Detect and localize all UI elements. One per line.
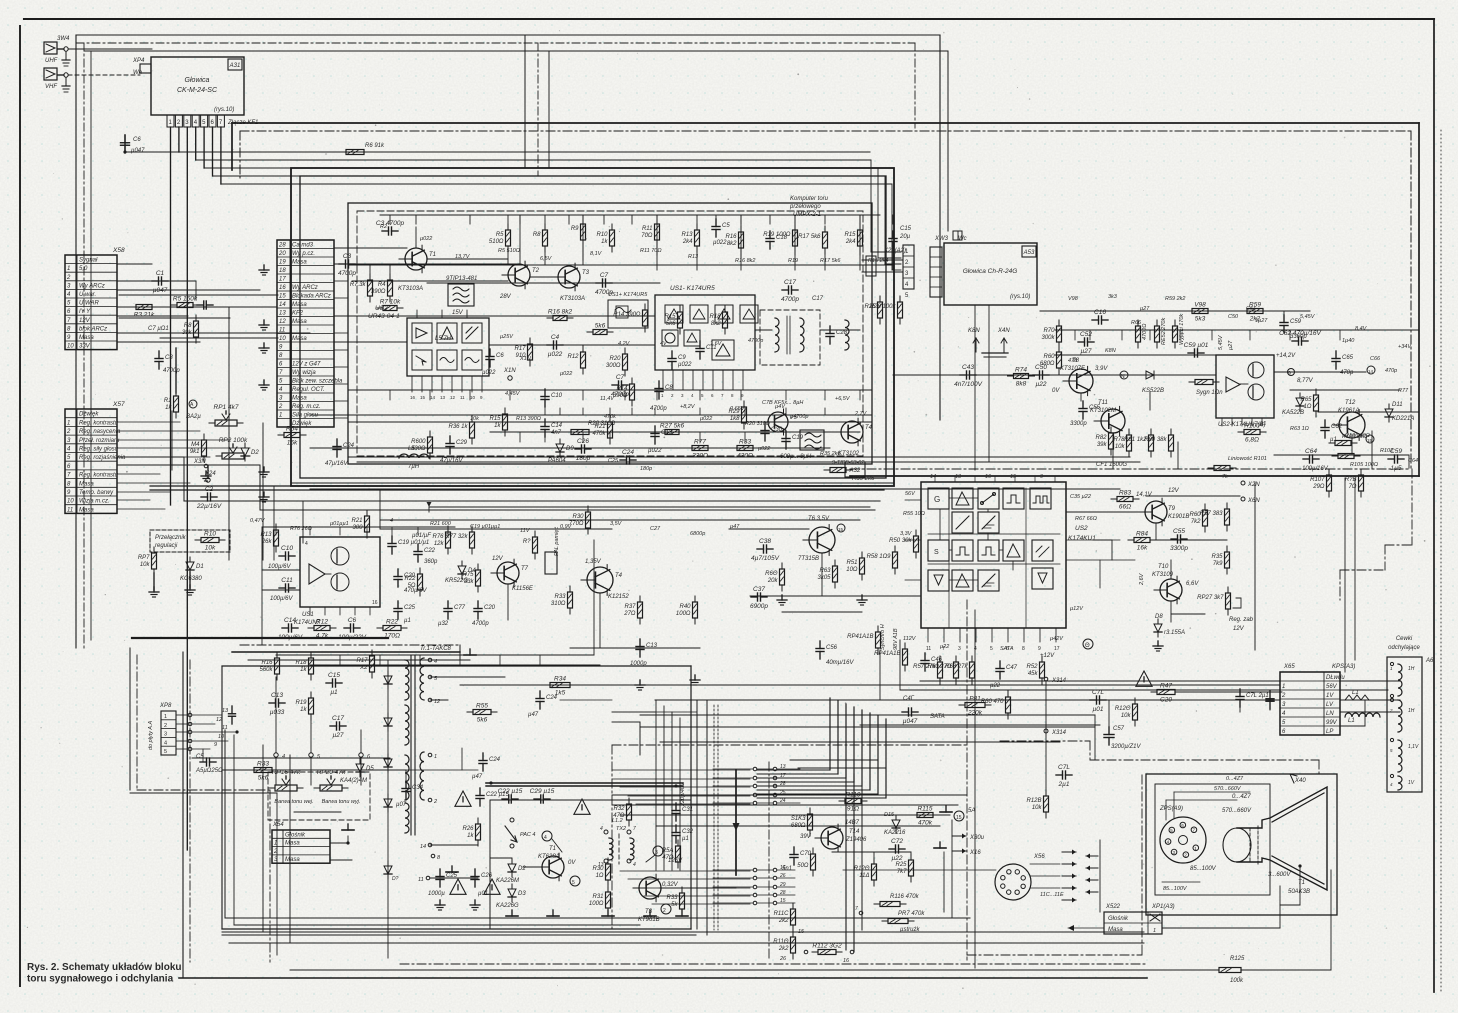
svg-text:7k: 7k (1222, 474, 1228, 480)
svg-text:R74: R74 (1015, 367, 1027, 374)
svg-text:15: 15 (780, 898, 786, 904)
svg-text:US1+ K174UR5: US1+ K174UR5 (608, 292, 648, 298)
svg-text:X30u: X30u (969, 835, 985, 841)
svg-text:KT628A: KT628A (538, 854, 560, 860)
svg-text:R54: R54 (286, 426, 298, 433)
svg-text:15: 15 (420, 395, 426, 400)
svg-text:µ27: µ27 (1228, 340, 1234, 350)
svg-text:4,2V: 4,2V (618, 341, 631, 347)
svg-text:430Ω: 430Ω (737, 453, 753, 460)
svg-text:L1: L1 (1352, 690, 1359, 696)
svg-text:KT3102: KT3102 (838, 451, 860, 457)
svg-text:R84: R84 (1136, 531, 1148, 538)
svg-text:K174KU1: K174KU1 (1068, 535, 1096, 542)
svg-text:X1N: X1N (519, 356, 531, 362)
svg-text:Masa: Masa (292, 319, 307, 325)
svg-text:VHF: VHF (45, 84, 57, 90)
svg-text:µ47: µ47 (528, 712, 539, 718)
svg-text:330Ω: 330Ω (692, 453, 708, 460)
svg-text:T7: T7 (521, 566, 529, 572)
svg-text:C6: C6 (496, 353, 504, 359)
svg-text:R12: R12 (316, 619, 328, 626)
svg-text:XW3: XW3 (934, 236, 949, 242)
svg-text:16: 16 (843, 958, 850, 964)
svg-text:D2: D2 (251, 450, 259, 456)
svg-text:PA604: PA604 (548, 458, 566, 464)
svg-text:16: 16 (372, 600, 378, 606)
svg-text:µ022: µ022 (648, 448, 662, 454)
svg-text:4: 4 (390, 518, 393, 524)
svg-text:A31: A31 (229, 63, 241, 69)
svg-text:PAL pamięć: PAL pamięć (554, 527, 560, 556)
svg-text:R59 2k2: R59 2k2 (1165, 296, 1186, 302)
svg-text:8,1V: 8,1V (590, 251, 603, 257)
svg-text:12V: 12V (492, 556, 504, 562)
svg-text:2: 2 (278, 404, 283, 410)
svg-text:BA2µ: BA2µ (186, 414, 201, 420)
svg-text:R12Θ: R12Θ (1115, 706, 1131, 712)
svg-text:X54: X54 (272, 822, 284, 828)
svg-text:US2: US2 (375, 305, 388, 312)
svg-text:16: 16 (985, 474, 992, 480)
svg-text:K8N: K8N (1105, 348, 1116, 354)
svg-text:R35 2k6: R35 2k6 (852, 476, 875, 482)
svg-text:R34: R34 (554, 676, 566, 683)
svg-text:Dźwięk: Dźwięk (79, 412, 99, 418)
svg-text:C51: C51 (1246, 306, 1256, 312)
svg-text:C77: C77 (454, 605, 466, 611)
svg-text:11Δ: 11Δ (859, 873, 869, 879)
svg-text:R21: R21 (351, 518, 362, 524)
svg-text:20: 20 (278, 251, 286, 257)
svg-text:R35: R35 (1211, 554, 1223, 560)
svg-text:5: 5 (990, 646, 993, 652)
svg-text:T4: T4 (865, 425, 873, 431)
svg-text:R3 21k: R3 21k (134, 312, 155, 319)
svg-text:A6: A6 (1425, 658, 1434, 664)
svg-text:1k8: 1k8 (730, 416, 740, 422)
svg-text:11: 11 (926, 646, 931, 652)
svg-text:R40: R40 (679, 604, 691, 610)
svg-text:Θ: Θ (1085, 643, 1090, 649)
svg-text:28: 28 (278, 243, 286, 249)
svg-text:Masa: Masa (292, 396, 307, 402)
svg-text:R10: R10 (204, 531, 216, 538)
svg-text:4: 4 (600, 826, 603, 832)
svg-text:7: 7 (633, 826, 636, 832)
svg-text:T1: T1 (429, 252, 436, 258)
svg-text:R36 1k: R36 1k (448, 424, 468, 430)
svg-text:R14: R14 (616, 386, 628, 392)
svg-text:R68 27k: R68 27k (945, 664, 968, 670)
svg-text:10k: 10k (1121, 713, 1132, 719)
svg-text:T12: T12 (1345, 400, 1356, 406)
svg-text:µstrużk: µstrużk (900, 927, 920, 933)
svg-text:4700p: 4700p (338, 270, 356, 277)
svg-text:Masa: Masa (285, 857, 300, 863)
svg-text:9-TIP8-63-02: 9-TIP8-63-02 (832, 460, 864, 466)
svg-text:91Ω: 91Ω (847, 806, 859, 813)
svg-text:1H: 1H (1408, 666, 1415, 672)
svg-text:X6N: X6N (1247, 498, 1260, 504)
svg-text:(rys.10): (rys.10) (214, 107, 234, 113)
svg-text:3k3: 3k3 (1108, 294, 1118, 300)
svg-text:Głowica: Głowica (185, 77, 210, 84)
svg-text:Temp. barwy: Temp. barwy (79, 490, 114, 496)
svg-text:1: 1 (279, 413, 282, 419)
svg-text:50AK3B: 50AK3B (1288, 889, 1310, 895)
svg-text:D11: D11 (1392, 402, 1403, 408)
svg-text:C7L 2µ1: C7L 2µ1 (1246, 693, 1269, 699)
svg-text:12: 12 (450, 395, 456, 400)
svg-text:4700p: 4700p (163, 368, 180, 374)
svg-text:C50: C50 (1228, 314, 1239, 320)
svg-text:KA522B: KA522B (1282, 410, 1304, 416)
svg-text:T4: T4 (615, 573, 623, 579)
svg-text:µ022: µ022 (548, 351, 563, 358)
svg-text:C29: C29 (456, 440, 468, 446)
svg-text:C38: C38 (759, 538, 771, 545)
svg-text:µ07: µ07 (396, 802, 407, 808)
svg-text:8k8: 8k8 (1016, 381, 1027, 388)
svg-text:12V z G47: 12V z G47 (292, 362, 321, 368)
svg-text:R15: R15 (844, 232, 856, 238)
svg-text:R11C: R11C (774, 911, 790, 917)
svg-text:C62 470µ/16V: C62 470µ/16V (1279, 330, 1321, 337)
svg-text:13: 13 (279, 311, 286, 317)
svg-text:3,3V: 3,3V (900, 531, 913, 537)
svg-text:47µ/16V: 47µ/16V (440, 458, 463, 464)
svg-text:1k: 1k (467, 833, 474, 839)
svg-text:R1: R1 (164, 398, 172, 404)
svg-text:1,35V: 1,35V (585, 559, 602, 565)
svg-text:R37: R37 (624, 604, 636, 610)
svg-text:5n1: 5n1 (782, 866, 792, 872)
svg-text:C72: C72 (891, 838, 903, 845)
svg-text:11,4V: 11,4V (600, 396, 615, 402)
svg-text:3200µ/Z1V: 3200µ/Z1V (1111, 744, 1141, 750)
svg-text:47Ω: 47Ω (613, 813, 625, 819)
svg-text:14: 14 (930, 474, 936, 480)
svg-text:R76 26Ω: R76 26Ω (290, 526, 312, 532)
svg-text:2k2: 2k2 (778, 946, 789, 952)
svg-text:N: N (1121, 374, 1125, 380)
svg-text:1: 1 (67, 266, 70, 272)
svg-text:C17: C17 (784, 279, 796, 286)
svg-text:478: 478 (1068, 358, 1078, 364)
svg-text:4µ7/105V: 4µ7/105V (751, 555, 780, 562)
svg-text:Masa: Masa (292, 302, 307, 308)
svg-text:R2: R2 (380, 224, 387, 230)
svg-text:R16 8k2: R16 8k2 (735, 258, 756, 264)
svg-text:XP1(A3): XP1(A3) (1151, 904, 1175, 910)
svg-text:R15 2k4: R15 2k4 (868, 258, 889, 264)
svg-text:C4Γ: C4Γ (903, 696, 915, 702)
svg-text:K8N: K8N (968, 328, 980, 334)
svg-text:4n7: 4n7 (551, 430, 562, 436)
svg-text:R28 100k: R28 100k (870, 304, 897, 310)
svg-text:R12B: R12B (1026, 798, 1041, 804)
svg-text:Reg. kontrastu: Reg. kontrastu (79, 420, 119, 426)
svg-text:R33: R33 (554, 594, 566, 600)
svg-text:R67 66Ω: R67 66Ω (1075, 516, 1097, 522)
svg-text:R77: R77 (1398, 388, 1409, 394)
svg-text:odchylające: odchylające (1388, 645, 1420, 651)
svg-text:(rys.10): (rys.10) (1010, 294, 1030, 300)
svg-text:R17 5k6: R17 5k6 (820, 258, 841, 264)
svg-text:1000µ: 1000µ (428, 891, 445, 897)
svg-text:10k: 10k (140, 562, 151, 568)
svg-text:D3: D3 (518, 891, 526, 897)
svg-text:28V: 28V (499, 294, 512, 300)
svg-text:KD221A: KD221A (1392, 416, 1414, 422)
svg-text:4: 4 (974, 646, 977, 652)
svg-text:3300p: 3300p (1070, 421, 1087, 427)
svg-text:5: 5 (164, 749, 167, 755)
svg-text:33k: 33k (464, 579, 475, 585)
svg-text:KT3103A: KT3103A (560, 296, 585, 302)
svg-text:K1961A: K1961A (1338, 408, 1359, 414)
svg-text:C6: C6 (133, 137, 141, 143)
svg-text:S: S (934, 549, 939, 556)
svg-text:R22: R22 (404, 576, 416, 582)
svg-text:R32: R32 (613, 806, 625, 812)
svg-text:C66: C66 (1370, 356, 1381, 362)
svg-text:6,6V: 6,6V (1186, 581, 1199, 587)
svg-text:0V: 0V (568, 860, 576, 866)
svg-text:µ022: µ022 (420, 236, 432, 242)
svg-text:Przeł. rozmiaru: Przeł. rozmiaru (79, 438, 120, 444)
svg-text:15: 15 (798, 929, 805, 935)
svg-text:LP: LP (1326, 729, 1333, 735)
svg-text:R21: R21 (594, 424, 605, 430)
svg-text:R20: R20 (609, 356, 621, 362)
svg-text:8: 8 (1022, 646, 1025, 652)
svg-text:µ1: µ1 (330, 689, 338, 696)
svg-text:11: 11 (460, 395, 465, 400)
svg-text:12k: 12k (434, 541, 445, 547)
svg-text:3,9V: 3,9V (1095, 366, 1108, 372)
svg-text:C20: C20 (484, 605, 496, 611)
svg-text:R55: R55 (476, 703, 488, 710)
svg-text:C27: C27 (650, 526, 661, 532)
svg-text:R100: R100 (1244, 423, 1260, 430)
svg-text:Blokada ARCz: Blokada ARCz (292, 294, 331, 300)
svg-text:R105 100Ω: R105 100Ω (1350, 462, 1378, 468)
svg-text:V98: V98 (1068, 296, 1079, 302)
svg-text:X24: X24 (204, 471, 216, 477)
svg-text:T11: T11 (1098, 400, 1108, 406)
svg-text:6,5V: 6,5V (540, 256, 553, 262)
svg-text:R102: R102 (1380, 448, 1393, 454)
svg-text:RP7: RP7 (138, 555, 150, 561)
svg-text:U war.: U war. (79, 292, 96, 298)
svg-text:16: 16 (410, 395, 416, 400)
svg-text:R125: R125 (1230, 956, 1245, 962)
svg-text:C7L: C7L (1092, 689, 1104, 696)
svg-text:99V: 99V (1326, 720, 1338, 726)
svg-text:R60: R60 (1043, 354, 1055, 360)
svg-text:39k: 39k (1097, 442, 1108, 448)
svg-text:R17: R17 (356, 658, 368, 664)
svg-text:C7: C7 (600, 272, 609, 279)
svg-text:µ047: µ047 (153, 287, 168, 294)
svg-text:KA2216: KA2216 (884, 830, 906, 836)
svg-text:R5 150k: R5 150k (173, 296, 198, 303)
svg-text:8,77V: 8,77V (1297, 378, 1314, 384)
svg-text:R57 383: R57 383 (1200, 511, 1223, 517)
svg-text:toru sygnałowego i odchylania: toru sygnałowego i odchylania (27, 974, 174, 985)
svg-text:310Ω: 310Ω (551, 601, 566, 607)
svg-text:XP8: XP8 (159, 703, 172, 709)
svg-text:1µ40: 1µ40 (1342, 338, 1355, 344)
svg-text:K1901B: K1901B (1168, 514, 1189, 520)
svg-text:17: 17 (1054, 646, 1060, 652)
svg-text:100Ω: 100Ω (676, 611, 691, 617)
svg-text:360p: 360p (424, 559, 438, 565)
svg-text:1,6V: 1,6V (710, 341, 723, 347)
svg-text:Regul. OCT.: Regul. OCT. (292, 387, 325, 393)
svg-text:X40: X40 (1294, 778, 1306, 784)
svg-text:C24: C24 (489, 757, 501, 763)
svg-text:Reg. kontrastu: Reg. kontrastu (79, 473, 119, 479)
svg-text:100µ/6V: 100µ/6V (268, 564, 291, 570)
svg-text:RP1 4k7: RP1 4k7 (214, 404, 239, 411)
svg-text:Głośnik: Głośnik (1108, 916, 1129, 922)
svg-text:13: 13 (598, 862, 604, 868)
svg-text:8k2: 8k2 (727, 241, 737, 247)
svg-text:22µ/16V: 22µ/16V (196, 503, 222, 510)
svg-text:C56: C56 (826, 645, 838, 651)
svg-text:300: 300 (352, 525, 363, 531)
svg-text:X16: X16 (969, 850, 981, 856)
svg-text:X1N: X1N (503, 368, 516, 374)
svg-text:C7 µΩ1: C7 µΩ1 (148, 326, 169, 332)
svg-text:3: 3 (958, 646, 961, 652)
svg-text:V98: V98 (1194, 302, 1206, 309)
svg-text:1µ5: 1µ5 (1391, 465, 1402, 472)
svg-text:T6 3,5V: T6 3,5V (808, 516, 830, 522)
svg-text:2: 2 (66, 275, 71, 281)
svg-text:C32: C32 (682, 829, 694, 835)
svg-text:µ022: µ022 (678, 362, 692, 368)
svg-text:16k: 16k (1137, 545, 1148, 552)
svg-text:A32: A32 (849, 468, 861, 474)
svg-text:26: 26 (779, 956, 787, 962)
svg-text:R15: R15 (664, 314, 676, 320)
svg-text:13,7V: 13,7V (455, 254, 471, 260)
svg-text:C17: C17 (812, 296, 824, 302)
svg-text:T1: T1 (1298, 880, 1305, 886)
svg-text:10k: 10k (205, 545, 216, 552)
svg-text:R10: R10 (596, 232, 608, 238)
svg-text:C64: C64 (1305, 448, 1317, 455)
svg-text:680Ω: 680Ω (1040, 361, 1055, 367)
svg-text:6,8Ω: 6,8Ω (1245, 437, 1259, 444)
svg-text:2: 2 (273, 849, 278, 855)
svg-text:19: 19 (279, 260, 286, 266)
svg-text:28: 28 (779, 781, 786, 787)
svg-text:570...660V: 570...660V (1222, 808, 1252, 814)
svg-text:µ01µµ1: µ01µµ1 (330, 521, 349, 527)
svg-text:µ1: µ1 (1260, 421, 1266, 427)
svg-text:1,1V: 1,1V (1408, 744, 1419, 750)
svg-text:2,7V: 2,7V (854, 411, 868, 417)
svg-text:µ22: µ22 (940, 644, 949, 650)
svg-text:4: 4 (633, 862, 636, 868)
svg-text:1H: 1H (1408, 708, 1415, 714)
svg-text:µ27: µ27 (333, 732, 344, 739)
svg-text:17: 17 (279, 277, 286, 283)
svg-text:4700p: 4700p (650, 406, 667, 412)
svg-text:1k: 1k (300, 667, 307, 673)
svg-text:R107: R107 (1310, 477, 1325, 483)
svg-text:Komputer toru: Komputer toru (790, 196, 829, 202)
svg-text:R63: R63 (819, 568, 831, 574)
svg-text:Sygnał: Sygnał (79, 258, 98, 264)
svg-text:µ4700p: µ4700p (790, 414, 808, 420)
svg-text:24: 24 (779, 798, 786, 804)
svg-text:R16 8k2: R16 8k2 (548, 309, 573, 316)
svg-text:C19 µ01µµ1: C19 µ01µµ1 (470, 524, 500, 530)
svg-text:T10: T10 (1158, 564, 1169, 570)
svg-text:C43: C43 (962, 364, 974, 371)
svg-text:X65: X65 (1283, 664, 1295, 670)
svg-text:D?: D? (392, 876, 399, 882)
svg-text:C7: C7 (616, 374, 625, 381)
svg-text:KT3102M: KT3102M (1090, 408, 1116, 414)
svg-text:4: 4 (305, 541, 308, 547)
svg-text:C15: C15 (328, 672, 340, 679)
svg-text:Wy ARCz: Wy ARCz (79, 283, 105, 289)
svg-text:µ033: µ033 (270, 709, 285, 716)
svg-text:U WAR: U WAR (79, 301, 100, 307)
svg-text:R77 32k: R77 32k (445, 534, 468, 540)
svg-text:0V: 0V (1052, 388, 1060, 394)
svg-text:14: 14 (420, 844, 426, 850)
svg-text:R82: R82 (1095, 435, 1107, 441)
svg-text:85...100V: 85...100V (1163, 886, 1188, 892)
svg-text:R12: R12 (567, 354, 579, 360)
svg-text:5k: 5k (671, 902, 678, 908)
svg-text:16: 16 (279, 285, 286, 291)
svg-text:11C...11E: 11C...11E (1040, 892, 1064, 898)
svg-text:39k: 39k (182, 330, 193, 336)
svg-text:R17: R17 (514, 346, 526, 352)
svg-text:R66: R66 (1131, 320, 1142, 326)
svg-text:12: 12 (216, 717, 222, 723)
svg-text:do płyty A.A: do płyty A.A (148, 721, 154, 750)
svg-text:C22: C22 (424, 548, 436, 554)
svg-text:R5 510Ω: R5 510Ω (498, 248, 520, 254)
svg-text:Sygn 1Ωn: Sygn 1Ωn (1196, 390, 1223, 396)
svg-text:4: 4 (164, 740, 167, 746)
svg-text:C65: C65 (1342, 355, 1354, 361)
svg-text:X2N: X2N (1247, 482, 1260, 488)
svg-text:Masa: Masa (285, 841, 300, 847)
svg-text:C1: C1 (156, 270, 165, 277)
svg-text:+34V: +34V (1398, 344, 1412, 350)
svg-text:330Ω: 330Ω (411, 446, 426, 452)
svg-text:TX2: TX2 (616, 826, 626, 832)
svg-text:C16: C16 (1094, 309, 1106, 316)
svg-text:98V A1B: 98V A1B (893, 628, 899, 650)
svg-text:14: 14 (1368, 369, 1374, 374)
svg-text:2,6V: 2,6V (1139, 572, 1145, 586)
svg-text:Tr.1-TAKC8: Tr.1-TAKC8 (420, 646, 452, 652)
svg-text:R600: R600 (411, 439, 426, 445)
svg-text:X522: X522 (1105, 904, 1121, 910)
